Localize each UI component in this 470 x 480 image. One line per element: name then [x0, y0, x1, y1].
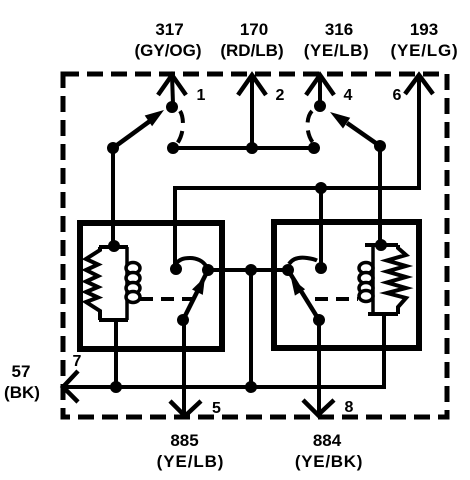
svg-text:57: 57	[12, 362, 31, 381]
node: ground bus left	[110, 381, 122, 393]
switch S2 throw arc (dashed) under pin 4	[307, 111, 315, 145]
node: inter-relay junction	[245, 264, 257, 276]
node: K1 contact	[170, 263, 182, 275]
relay K2 box (right)	[274, 222, 419, 348]
svg-text:6: 6	[393, 87, 402, 104]
svg-text:885: 885	[170, 431, 198, 450]
pin 8 connector arrow	[303, 399, 354, 416]
node: K2 contact	[315, 262, 327, 274]
node: pin2 junction	[246, 142, 258, 154]
wire label 170 (RD/LB)	[220, 20, 283, 60]
node: K1 armature pivot	[177, 314, 189, 326]
relay K2 coil bottom bar	[368, 312, 398, 316]
wire: left coil bottom down to ground bus	[114, 320, 118, 387]
svg-text:316: 316	[325, 20, 353, 39]
svg-text:1: 1	[197, 87, 206, 104]
node: S1 pivot	[107, 142, 119, 154]
wire label 884 (YE/BK)	[295, 431, 363, 471]
svg-text:(BK): (BK)	[4, 383, 40, 402]
svg-text:884: 884	[313, 431, 342, 450]
pin 7 connector arrow	[63, 353, 82, 402]
pin 1 connector arrow	[158, 75, 206, 104]
wire: pin 6 down, along y=188, down to left relay contact	[175, 75, 419, 269]
pin 4 connector arrow	[306, 75, 353, 104]
connector dashed boundary box	[63, 74, 447, 417]
wire label 193 (YE/LG)	[391, 20, 459, 60]
node: pin4 contact	[314, 100, 326, 112]
relay K2 coil top bar	[365, 243, 398, 247]
relay K1 coil bottom bar	[99, 318, 128, 322]
relay K2 armature arrow	[288, 270, 319, 320]
relay K1 coil core	[125, 247, 129, 320]
wire: left armature pivot down to pin 5	[182, 320, 186, 414]
relay K1 resistor zigzag	[86, 247, 100, 320]
svg-text:4: 4	[344, 87, 353, 104]
wire: inter-relay bus y=270	[208, 268, 288, 272]
switch S1 throw arc (dashed) under pin 1	[176, 111, 183, 145]
svg-text:(YE/LB): (YE/LB)	[157, 452, 225, 471]
switch S2 armature arrow (pivot to pin4 contact)	[347, 123, 380, 146]
svg-text:2: 2	[276, 87, 285, 104]
svg-text:(YE/LB): (YE/LB)	[304, 41, 370, 60]
relay K2 contact arc	[289, 258, 317, 264]
relay K1 contact arc	[175, 258, 206, 266]
pin 6 connector arrow	[393, 75, 433, 104]
svg-text:7: 7	[73, 353, 82, 370]
svg-text:5: 5	[212, 400, 221, 417]
pin 2 connector arrow	[238, 75, 285, 148]
node: S2 lower throw	[308, 142, 320, 154]
svg-text:(RD/LB): (RD/LB)	[220, 41, 283, 60]
relay K2 resistor zigzag	[387, 245, 406, 314]
switch S1 armature arrow (pivot to pin1 contact)	[113, 121, 150, 148]
relay K2 mechanical link (dashed)	[315, 297, 358, 301]
relay K1 armature arrow	[183, 270, 208, 320]
node: K2 coil top	[375, 239, 387, 251]
wire: right pivot down to right coil top	[378, 146, 382, 245]
svg-text:(GY/OG): (GY/OG)	[134, 41, 201, 60]
relay K1 coil top bar	[99, 245, 128, 249]
wire label 57 (BK)	[4, 362, 40, 402]
node: K1 coil top	[108, 240, 120, 252]
relay K1 mechanical link (dashed)	[140, 297, 192, 301]
relay K1 box (left)	[80, 223, 222, 349]
relay K1 coil loops	[126, 263, 140, 303]
svg-text:(YE/LG): (YE/LG)	[391, 41, 459, 60]
svg-text:317: 317	[155, 20, 183, 39]
node: ground bus mid	[245, 381, 257, 393]
relay K2 coil loops	[359, 263, 373, 302]
wire: left pivot down to left coil top	[111, 148, 115, 246]
svg-text:170: 170	[240, 20, 268, 39]
wire: pin 7 ground bus with rise to right coil bottom	[63, 314, 384, 387]
wire label 885 (YE/LB)	[157, 431, 225, 471]
node: K1 common	[202, 264, 214, 276]
wire: horizontal bus y=148 between switch throws	[173, 146, 314, 150]
wire: node at y=188 down to right relay contact	[319, 188, 323, 268]
node: K2 common	[282, 264, 294, 276]
node: S1 lower throw	[167, 142, 179, 154]
node: S2 pivot	[374, 140, 386, 152]
relay K2 coil core	[371, 245, 375, 314]
pin 5 connector arrow	[170, 400, 221, 417]
wire: right armature pivot down to pin 8	[317, 320, 321, 414]
wire label 316 (YE/LB)	[304, 20, 370, 60]
wire: junction y=270 down to ground bus	[249, 270, 253, 387]
svg-text:8: 8	[345, 399, 354, 416]
wire label 317 (GY/OG)	[134, 20, 201, 60]
svg-text:(YE/BK): (YE/BK)	[295, 452, 363, 471]
svg-text:193: 193	[410, 20, 438, 39]
node: K2 armature pivot	[313, 314, 325, 326]
node: pin1 contact	[166, 101, 178, 113]
node: y=188 junction	[315, 182, 327, 194]
